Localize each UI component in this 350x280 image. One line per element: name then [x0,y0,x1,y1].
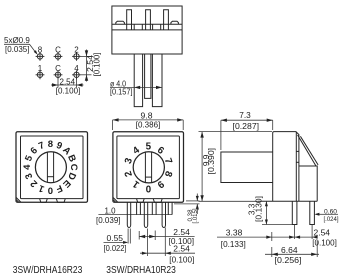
right tab bump [171,21,179,24]
svg-text:1: 1 [38,64,43,73]
prong 2 [146,10,151,30]
leg 3 (right, long) [152,54,162,107]
svg-text:5xØ0.9: 5xØ0.9 [4,36,30,45]
16-position rotary switch front view: outer case [16,132,88,203]
svg-text:0: 0 [145,182,151,193]
dimension 3.38 [0.133] and 2.54 [0.100] leg positions [217,229,337,249]
svg-text:[0.133]: [0.133] [221,240,246,249]
bottom tab 1 [40,199,48,203]
svg-text:[0.386]: [0.386] [136,121,161,130]
svg-text:6.64: 6.64 [281,246,298,255]
svg-text:C: C [55,64,61,73]
leg 2 (middle, short) [145,54,151,98]
pin centerlines below tips [164,228,166,257]
svg-text:[0.157]: [0.157] [110,88,133,97]
svg-text:[0.035]: [0.035] [5,45,29,54]
svg-text:[0.256]: [0.256] [275,256,302,265]
front pin 1 [127,202,130,227]
rotor circle [133,152,164,183]
svg-text:[0.100]: [0.100] [312,239,337,248]
inner case [117,136,179,199]
prong 3 [164,10,169,30]
dimension 0.38 [.015] standoff (right of switch) [174,194,200,224]
inner edge line [295,132,297,202]
svg-text:[0.100]: [0.100] [93,53,102,77]
svg-text:8: 8 [38,46,43,55]
svg-text:[0.100]: [0.100] [56,87,81,96]
svg-text:2: 2 [74,46,79,55]
dimension 7.3 [0.287] shaft length [221,111,273,150]
leader line to pad 8 [30,44,37,53]
svg-text:2.54: 2.54 [173,228,190,237]
svg-text:3.38: 3.38 [226,229,243,238]
inner case [21,136,84,199]
dimension 3.3 [0.130] leg length [247,196,292,225]
dimension 0.55 [0.022] pin width [104,229,131,254]
svg-text:C: C [68,164,79,171]
pad 4 (bottom row) [72,64,81,79]
svg-text:0: 0 [48,185,53,196]
svg-text:[0.100]: [0.100] [169,255,194,264]
seating leader line (1.0 dim) [98,214,172,216]
front pin 2 [144,202,147,227]
front pin 3 [162,202,165,227]
dimension 9.8 [0.386] body width [113,111,184,130]
corner chamfer mark [16,198,21,203]
leg 1 (left, long) [134,54,142,107]
svg-text:8: 8 [48,139,53,150]
svg-text:[0.022]: [0.022] [104,244,127,253]
svg-text:4: 4 [22,164,33,170]
terminal ticks [133,24,135,30]
switch body outline (top elevation view) [112,6,182,54]
pad 1 (bottom row) [36,64,45,79]
svg-text:[0.039]: [0.039] [96,216,121,225]
svg-text:9.8: 9.8 [141,111,154,120]
terminal strip lines [112,23,182,25]
dimension 2.54 [0.100] second [140,229,195,265]
corner chamfer mark [113,198,118,203]
bottom edge [258,200,317,202]
svg-text:5: 5 [146,141,152,152]
10-position rotary switch front view: outer case [113,132,184,203]
svg-text:3SW/DRHA16R23: 3SW/DRHA16R23 [13,265,83,276]
dimension 0.60 [.024] leg thickness [314,208,338,222]
dimension 2.54 [0.100] first [139,228,194,246]
side view: main body [273,132,299,202]
horizontal dimension 2.54 [0.100] between pad columns [51,78,84,96]
bottom tab 1 [137,199,145,203]
svg-text:3SW/DRHA10R23: 3SW/DRHA10R23 [106,265,176,276]
vertical dimension 2.54 [0.100] between pad rows [81,50,102,82]
svg-text:C: C [55,46,61,55]
dimension diameter 4.0 [0.157] across legs [110,79,162,96]
bottom tab 2 [56,199,65,203]
svg-text:4: 4 [74,64,79,73]
svg-text:[.024]: [.024] [324,216,339,223]
svg-text:2.54: 2.54 [60,78,76,87]
dimension 1.0 [0.039] [96,207,121,225]
rotor slot [144,152,146,182]
prong 1 [127,10,132,30]
bottom tab 2 [153,199,162,203]
svg-text:7.3: 7.3 [239,111,251,120]
pad 2 (top row) [72,46,81,61]
svg-text:[.015]: [.015] [192,208,199,223]
svg-text:0.55: 0.55 [107,234,124,243]
back row pin stubs [137,202,141,214]
dimension 6.64 [0.256] [265,241,319,265]
leg right [310,201,315,224]
pad C (top row) [54,46,63,61]
svg-text:2.54: 2.54 [314,229,331,238]
left tab bump [116,21,125,24]
strip detail marks [296,150,299,152]
dimension 9.9 [0.390] body height [199,132,273,202]
svg-text:[0.287]: [0.287] [233,122,260,131]
svg-text:1.0: 1.0 [105,207,117,216]
svg-text:2.54: 2.54 [173,245,190,254]
clip diagonals [298,135,316,166]
rotor circle [35,152,66,183]
leg centerlines [294,225,296,240]
rotor slot [46,152,48,182]
shaft (left protrusion) [221,152,273,183]
right block [299,166,317,201]
pad 8 (top row) [36,46,45,61]
svg-text:[0.390]: [0.390] [207,148,216,175]
pad C (bottom row) [54,64,63,79]
svg-text:[0.130]: [0.130] [254,196,263,222]
leg left [292,201,297,224]
